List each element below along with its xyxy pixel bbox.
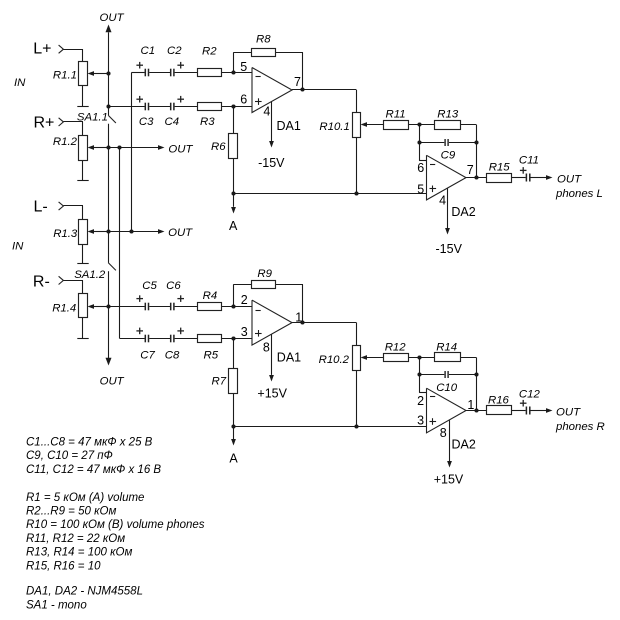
svg-text:DA1: DA1 [277, 351, 301, 365]
svg-text:R4: R4 [203, 290, 218, 302]
svg-text:SA1.2: SA1.2 [74, 269, 106, 281]
svg-text:R10.2: R10.2 [319, 354, 350, 366]
svg-text:R11, R12 = 22 кОм: R11, R12 = 22 кОм [26, 533, 125, 545]
svg-text:R+: R+ [34, 115, 55, 132]
svg-text:IN: IN [12, 240, 24, 252]
svg-text:R13: R13 [437, 109, 459, 121]
svg-text:C2: C2 [167, 45, 182, 57]
svg-text:DA2: DA2 [451, 205, 475, 219]
svg-text:3: 3 [241, 325, 248, 339]
svg-text:OUT: OUT [168, 227, 193, 239]
svg-text:C1: C1 [141, 45, 156, 57]
svg-text:R1 = 5 кОм (А) volume: R1 = 5 кОм (А) volume [26, 492, 144, 504]
svg-text:C11, C12 = 47 мкФ x 16 В: C11, C12 = 47 мкФ x 16 В [26, 464, 161, 476]
svg-text:5: 5 [240, 60, 247, 74]
svg-text:C7: C7 [140, 350, 155, 362]
svg-text:SA1.1: SA1.1 [77, 111, 108, 123]
svg-text:R2: R2 [202, 46, 217, 58]
svg-text:DA1: DA1 [277, 119, 301, 133]
svg-text:R1.2: R1.2 [53, 136, 78, 148]
svg-text:R15, R16 = 10: R15, R16 = 10 [26, 560, 101, 572]
svg-text:+15V: +15V [434, 472, 464, 486]
svg-text:6: 6 [417, 161, 424, 175]
svg-text:2: 2 [241, 293, 248, 307]
svg-text:R10 = 100 кОм (В) volume phone: R10 = 100 кОм (В) volume phones [26, 519, 205, 531]
svg-text:R10.1: R10.1 [319, 121, 349, 133]
svg-text:4: 4 [439, 194, 446, 208]
svg-text:C11: C11 [519, 155, 539, 167]
svg-text:R11: R11 [386, 109, 406, 121]
svg-text:R3: R3 [200, 116, 215, 128]
svg-text:8: 8 [263, 340, 270, 354]
svg-text:R8: R8 [256, 33, 271, 45]
svg-text:DA1, DA2 - NJM4558L: DA1, DA2 - NJM4558L [26, 586, 143, 598]
svg-text:+15V: +15V [257, 386, 287, 400]
svg-text:OUT: OUT [557, 173, 582, 185]
svg-text:OUT: OUT [100, 12, 125, 24]
svg-text:C3: C3 [139, 116, 154, 128]
svg-text:C5: C5 [142, 280, 157, 292]
svg-text:6: 6 [240, 93, 247, 107]
svg-text:OUT: OUT [556, 406, 581, 418]
svg-text:L+: L+ [33, 41, 51, 58]
svg-text:C4: C4 [165, 116, 180, 128]
svg-text:R9: R9 [257, 268, 272, 280]
svg-text:R2...R9 = 50 кОм: R2...R9 = 50 кОм [26, 506, 116, 518]
svg-text:R13, R14 = 100 кОм: R13, R14 = 100 кОм [26, 547, 132, 559]
svg-text:C10: C10 [436, 382, 458, 394]
svg-text:A: A [229, 452, 238, 466]
svg-text:7: 7 [294, 75, 301, 89]
svg-text:R6: R6 [211, 141, 226, 153]
svg-text:R5: R5 [204, 350, 219, 362]
svg-text:5: 5 [417, 182, 424, 196]
svg-text:L-: L- [34, 199, 48, 216]
svg-text:3: 3 [417, 414, 424, 428]
svg-text:C6: C6 [166, 280, 181, 292]
svg-text:R1.1: R1.1 [53, 70, 77, 82]
svg-text:A: A [229, 219, 238, 233]
svg-text:phones R: phones R [555, 421, 605, 433]
svg-text:DA2: DA2 [452, 437, 476, 451]
svg-text:R-: R- [33, 273, 50, 290]
svg-text:1: 1 [467, 398, 474, 412]
svg-text:-15V: -15V [258, 156, 285, 170]
svg-text:R1.4: R1.4 [52, 303, 76, 315]
svg-text:R14: R14 [436, 342, 457, 354]
svg-text:4: 4 [263, 105, 270, 119]
svg-text:R1.3: R1.3 [53, 228, 78, 240]
svg-text:C12: C12 [519, 388, 541, 400]
svg-text:C1...C8 = 47 мкФ x 25 В: C1...C8 = 47 мкФ x 25 В [26, 436, 153, 448]
svg-text:R15: R15 [489, 162, 511, 174]
svg-text:8: 8 [440, 426, 447, 440]
svg-text:R16: R16 [488, 395, 510, 407]
svg-text:2: 2 [417, 394, 424, 408]
svg-text:R12: R12 [385, 342, 407, 354]
svg-text:phones L: phones L [555, 188, 603, 200]
svg-text:OUT: OUT [168, 143, 193, 155]
svg-text:OUT: OUT [100, 376, 125, 388]
svg-text:C8: C8 [165, 350, 180, 362]
svg-text:-15V: -15V [436, 242, 463, 256]
svg-text:SA1 - mono: SA1 - mono [26, 599, 87, 611]
svg-text:C9, C10 = 27 пФ: C9, C10 = 27 пФ [26, 450, 113, 462]
svg-text:R7: R7 [212, 375, 227, 387]
svg-text:C9: C9 [441, 150, 456, 162]
svg-text:7: 7 [467, 163, 474, 177]
svg-text:1: 1 [295, 311, 302, 325]
svg-text:IN: IN [14, 77, 26, 89]
